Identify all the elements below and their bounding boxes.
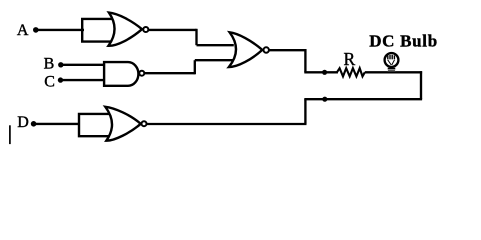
- wire A to gate U1: [36, 29, 84, 31]
- wire return vertical down to D gate output: [304, 99, 306, 124]
- node B terminal dot: [58, 62, 63, 67]
- wire U2 output vertical rise: [194, 60, 196, 74]
- gate U1 rectangle body (NOR, A input): [82, 19, 120, 42]
- wire U1 output vertical drop: [195, 29, 197, 45]
- stray mark bottom left: [9, 125, 11, 144]
- gate U1 output bubble: [143, 27, 148, 32]
- wire D to gate U4: [34, 123, 80, 125]
- wire D gate output to return: [147, 123, 307, 125]
- wire drop to lamp branch: [304, 49, 306, 72]
- lamp DS1 glass envelope: [385, 53, 399, 67]
- gate U4 output bubble: [142, 121, 147, 126]
- gate U2 NAND body: [104, 62, 138, 86]
- gate U3 NOR lens: [229, 32, 262, 67]
- svg-text:D: D: [17, 114, 29, 131]
- wire return branch horizontal: [304, 98, 422, 100]
- wire C to NAND U2: [61, 79, 106, 81]
- wire U3 output horizontal: [269, 49, 307, 51]
- resistor R zigzag: [337, 68, 365, 76]
- node C terminal dot: [58, 77, 63, 82]
- junction dot top branch: [322, 70, 327, 75]
- lamp DS1 base: [388, 68, 396, 72]
- svg-text:C: C: [44, 74, 55, 91]
- svg-text:DC Bulb: DC Bulb: [369, 32, 438, 51]
- wire lamp branch left segment: [304, 71, 338, 73]
- wire U2 output horizontal: [144, 72, 195, 74]
- node A terminal dot: [33, 27, 39, 33]
- svg-text:B: B: [44, 56, 55, 73]
- node D terminal dot: [31, 121, 37, 127]
- svg-text:R: R: [344, 49, 356, 69]
- gate U1 OR lens: [108, 13, 142, 46]
- gate U2 output bubble: [139, 71, 144, 76]
- wire into NOR U3 bottom input: [195, 59, 233, 61]
- gate U3 output bubble: [264, 47, 269, 52]
- wire U1 output horizontal: [148, 29, 196, 31]
- gate U4 rectangle body (NOR, D input): [79, 114, 117, 136]
- svg-text:A: A: [17, 22, 29, 39]
- junction dot return branch: [322, 97, 327, 102]
- lamp DS1 filament: [387, 55, 389, 59]
- gate U4 OR lens: [105, 107, 140, 141]
- wire B to NAND U2: [61, 64, 105, 66]
- wire into NOR U3 top input: [197, 44, 234, 46]
- wire right vertical down: [420, 71, 422, 99]
- wire resistor to right corner: [365, 71, 422, 73]
